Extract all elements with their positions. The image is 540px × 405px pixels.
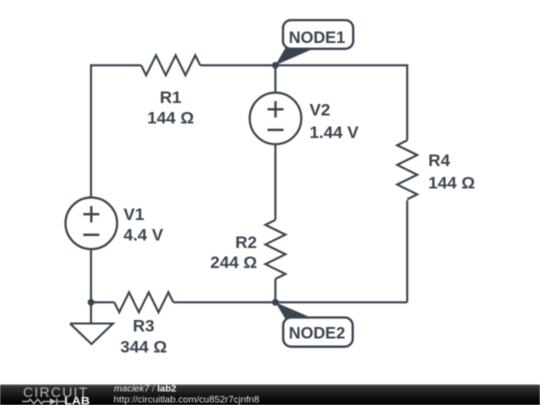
svg-text:144 Ω: 144 Ω [428, 174, 475, 193]
wire left vertical upper [90, 64, 92, 197]
svg-text:R3: R3 [133, 317, 155, 336]
svg-text:144 Ω: 144 Ω [147, 109, 194, 128]
svg-text:R1: R1 [160, 88, 182, 107]
wire right vertical upper [406, 64, 408, 140]
svg-text:V1: V1 [124, 205, 145, 224]
svg-text:R4: R4 [428, 151, 450, 170]
node B junction dot bottom middle [272, 299, 279, 306]
CircuitLab logo wordmark [23, 385, 89, 400]
resistor R2 [265, 220, 285, 279]
svg-text:http://circuitlab.com/cu852r7c: http://circuitlab.com/cu852r7cjnfn8 [114, 394, 260, 405]
voltage source V2 [250, 93, 302, 145]
wire middle between V2 and R2 [274, 144, 276, 220]
node A junction dot top [272, 62, 279, 69]
svg-text:R2: R2 [235, 233, 257, 252]
node NODE1 callout [275, 20, 353, 65]
wire bottom left segment [91, 301, 114, 303]
node C junction dot bottom left [88, 299, 95, 306]
svg-text:344 Ω: 344 Ω [120, 337, 167, 356]
resistor R4 [397, 140, 417, 199]
wire middle below R2 [274, 279, 276, 302]
svg-text:1.44 V: 1.44 V [310, 123, 360, 142]
wire left vertical lower [90, 249, 92, 302]
svg-text:NODE1: NODE1 [289, 29, 345, 47]
svg-text:LAB: LAB [64, 395, 90, 405]
resistor R3 [114, 292, 173, 312]
node NODE2 callout [275, 302, 352, 346]
svg-text:244 Ω: 244 Ω [210, 253, 257, 272]
resistor R1 [141, 55, 200, 75]
voltage source V1 [66, 198, 118, 250]
ground [70, 302, 113, 344]
logo resistor squiggle and diode [22, 398, 65, 405]
svg-text:NODE2: NODE2 [289, 325, 345, 343]
svg-text:4.4 V: 4.4 V [124, 226, 164, 245]
svg-text:V2: V2 [310, 101, 331, 120]
wire middle vertical upper [274, 64, 276, 92]
wire right vertical lower [406, 200, 408, 302]
wire bottom right segment [173, 301, 407, 303]
svg-text:maclek7 / lab2: maclek7 / lab2 [114, 383, 176, 394]
wire top left segment [91, 64, 141, 66]
wire top right segment [200, 64, 407, 66]
